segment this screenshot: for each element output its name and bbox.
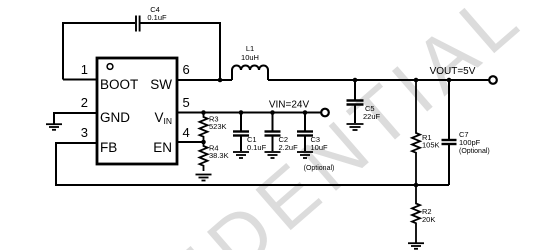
svg-text:L1: L1 [246, 44, 254, 53]
svg-text:(Optional): (Optional) [304, 165, 335, 172]
node junction dot R3/R4/EN [201, 140, 206, 145]
capacitor C3 [297, 113, 313, 152]
svg-text:523K: 523K [209, 122, 227, 131]
svg-text:22uF: 22uF [363, 112, 381, 121]
wire C4 right plate to top-right corner down to SW node [141, 23, 221, 80]
svg-text:105K: 105K [422, 141, 440, 150]
wire GND pin2 to ground [54, 113, 97, 124]
svg-text:20K: 20K [422, 215, 435, 224]
svg-text:0.1uF: 0.1uF [247, 143, 267, 152]
svg-text:10uH: 10uH [241, 53, 259, 62]
ground symbol at GND pin [46, 124, 62, 130]
resistor R1 [412, 80, 420, 185]
svg-text:0.1uF: 0.1uF [147, 13, 167, 22]
ground symbol below R2 [408, 243, 424, 249]
svg-text:2.2uF: 2.2uF [279, 143, 299, 152]
svg-text:FB: FB [100, 140, 117, 155]
svg-text:3: 3 [81, 125, 88, 140]
ground symbol below C2 [265, 152, 281, 158]
wire left vertical and top run to C4 left plate [63, 23, 135, 80]
svg-text:100pF: 100pF [459, 138, 481, 147]
wire VIN pin5 row to input terminal [177, 112, 322, 114]
wire FB pin3 feedback loop to bottom bus [56, 143, 449, 185]
pin 1 indicator circle [107, 64, 113, 70]
svg-text:5: 5 [183, 95, 190, 110]
svg-text:BOOT: BOOT [100, 77, 138, 92]
node junction dot C2 tap [270, 110, 275, 115]
ground symbol below C3 [297, 152, 313, 158]
wire SW pin6 to inductor L1 [177, 79, 232, 81]
svg-text:SW: SW [150, 77, 172, 92]
ground symbol below C5 [347, 124, 364, 130]
wire BOOT pin1 to left vertical [63, 79, 97, 81]
resistor R2 [412, 185, 420, 243]
wire L1 to VOUT terminal [268, 79, 489, 81]
resistor R3 [200, 113, 208, 143]
svg-text:EN: EN [153, 140, 172, 155]
ground symbol below C1 [233, 152, 249, 158]
node junction dot C7 tap [447, 78, 452, 83]
node junction dot C1 tap [239, 110, 244, 115]
svg-text:6: 6 [183, 62, 190, 77]
capacitor C2 [265, 113, 281, 152]
svg-text:VIN=24V: VIN=24V [269, 100, 310, 111]
svg-text:4: 4 [183, 125, 190, 140]
capacitor C1 [233, 113, 249, 152]
capacitor C4 [136, 16, 140, 32]
node junction dot C3 tap [303, 110, 308, 115]
svg-text:2: 2 [81, 95, 88, 110]
op-amp U1 (regulator IC body) [97, 58, 177, 164]
inductor L1 [232, 66, 268, 81]
ground symbol below R4 [196, 175, 212, 181]
terminal VIN open circle [321, 109, 329, 117]
svg-text:(Optional): (Optional) [459, 148, 490, 155]
svg-text:VOUT=5V: VOUT=5V [430, 66, 476, 77]
svg-text:38.3K: 38.3K [209, 151, 229, 160]
svg-text:10uF: 10uF [311, 143, 329, 152]
terminal VOUT open circle [489, 76, 497, 84]
node junction dot at SW/C4 [218, 78, 223, 83]
svg-text:GND: GND [100, 110, 130, 125]
capacitor C7 [442, 80, 457, 185]
node junction dot R1 tap [414, 78, 419, 83]
wire EN pin4 to R3/R4 junction [177, 141, 204, 143]
capacitor C5 [347, 80, 364, 123]
resistor R4 [200, 142, 208, 171]
node junction dot R3 tap [201, 110, 206, 115]
node junction dot C5 tap [353, 78, 358, 83]
svg-text:1: 1 [81, 62, 88, 77]
node junction dot R2 tap on bus [414, 183, 419, 188]
